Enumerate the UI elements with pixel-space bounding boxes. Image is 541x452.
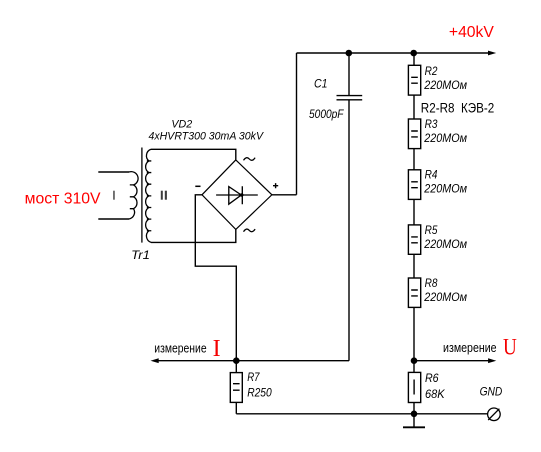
svg-text:I: I (213, 336, 221, 362)
wire bridge plus stub (272, 194, 297, 196)
wire secondary top lead (151, 149, 236, 160)
svg-text:R2-R8 КЭВ-2: R2-R8 КЭВ-2 (421, 101, 495, 116)
svg-text:R4: R4 (425, 168, 438, 182)
bridge tilde top (244, 158, 256, 161)
resistor R3 (408, 119, 420, 149)
node I junction (233, 357, 240, 364)
GND terminal circle (488, 408, 501, 421)
wire primary bottom lead (98, 218, 129, 220)
wire R2-R3 (413, 95, 415, 119)
ground (413, 414, 415, 427)
diode center dot (240, 193, 243, 196)
resistor R7 (230, 373, 242, 403)
resistor R2 (408, 65, 420, 95)
diode symbol inside VD2 (216, 186, 258, 204)
wire R5-R8 (413, 254, 415, 278)
wire C1 top lead (348, 53, 350, 95)
svg-text:220МОм: 220МОм (423, 237, 467, 251)
svg-text:C1: C1 (314, 76, 328, 90)
resistor R4 (408, 170, 420, 200)
diode bridge VD2 diamond (202, 160, 272, 230)
wire bridge minus path (195, 195, 236, 361)
svg-text:220МОм: 220МОм (423, 290, 467, 304)
wire secondary bottom lead (151, 229, 236, 242)
svg-text:измерение: измерение (443, 340, 497, 355)
resistor R6 (408, 372, 420, 402)
wire C1 to node I (236, 360, 349, 362)
svg-text:R2: R2 (425, 64, 438, 78)
bridge plus sign (273, 183, 278, 188)
wire R7 top lead (235, 361, 237, 373)
wire +V vertical from bridge (296, 53, 298, 195)
node U junction (411, 357, 418, 364)
svg-text:+40kV: +40kV (449, 24, 494, 41)
svg-text:Tr1: Tr1 (131, 248, 150, 262)
svg-text:4xHVRT300 30mA 30kV: 4xHVRT300 30mA 30kV (149, 130, 265, 142)
svg-text:мост 310V: мост 310V (25, 190, 101, 207)
label winding I (113, 191, 115, 200)
wire R3-R4 (413, 149, 415, 170)
svg-text:VD2: VD2 (171, 119, 192, 131)
svg-text:5000pF: 5000pF (309, 107, 344, 121)
svg-text:U: U (503, 335, 517, 360)
svg-text:220МОм: 220МОм (423, 182, 467, 196)
label winding II (161, 191, 163, 200)
wire node U to R6 (413, 361, 415, 373)
node bottom rail junction (411, 411, 418, 418)
svg-text:GND: GND (480, 384, 503, 398)
svg-text:220МОм: 220МОм (423, 131, 467, 145)
svg-text:R250: R250 (247, 386, 272, 400)
wire R8 to node U (413, 307, 415, 360)
wire R6 to bottom rail (413, 403, 415, 414)
svg-text:68K: 68K (425, 387, 446, 401)
node junction top rail C1 (346, 50, 353, 57)
wire R4-R5 (413, 199, 415, 225)
svg-text:R6: R6 (425, 371, 439, 385)
arrowhead measurement I (151, 358, 159, 363)
wire measurement U line (414, 360, 490, 362)
transformer Tr1 secondary winding II (146, 149, 152, 242)
bridge tilde bottom (244, 229, 256, 232)
arrowhead measurement U (488, 358, 496, 363)
bridge minus sign (195, 185, 200, 187)
wire resistor chain segment R2 top (413, 53, 415, 65)
node junction top rail R2 (410, 50, 417, 57)
wire top rail +40kV (297, 52, 491, 54)
resistor R5 (408, 225, 420, 254)
transformer Tr1 core (141, 148, 143, 243)
resistor R8 (408, 278, 420, 307)
wire bottom rail (236, 413, 487, 415)
svg-text:220МОм: 220МОм (423, 78, 467, 92)
transformer Tr1 primary winding I (129, 172, 138, 219)
wire primary top lead (98, 171, 129, 173)
svg-text:R3: R3 (425, 117, 438, 131)
wire measurement I line (154, 360, 236, 362)
wire C1 bottom lead (348, 100, 350, 360)
svg-text:R8: R8 (425, 276, 438, 290)
arrowhead +40kV (488, 51, 496, 56)
capacitor C1 (337, 96, 363, 100)
svg-text:R5: R5 (425, 223, 438, 237)
svg-text:измерение: измерение (154, 341, 206, 356)
wire R7 bottom lead (235, 402, 237, 413)
svg-text:R7: R7 (247, 370, 260, 384)
